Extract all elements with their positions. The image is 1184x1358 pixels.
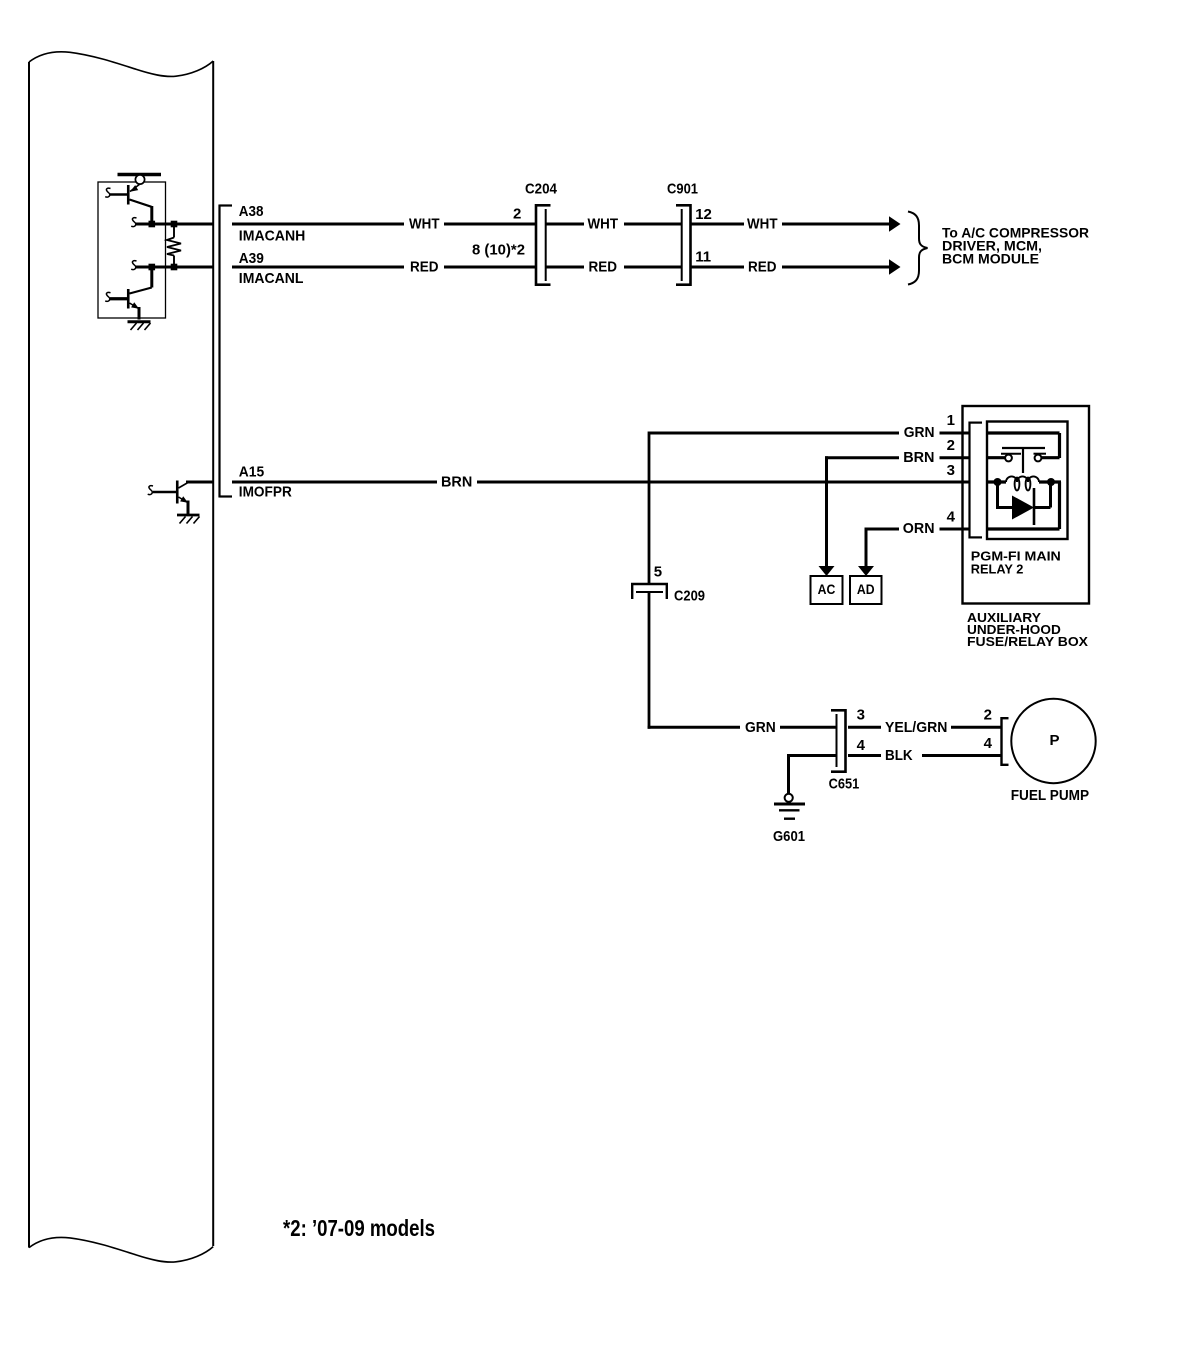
ground (Q2 emitter) bbox=[128, 322, 151, 330]
svg-text:WHT: WHT bbox=[588, 216, 619, 233]
transistor Q3 (IMOFPR driver) bbox=[153, 481, 213, 515]
svg-text:2: 2 bbox=[513, 206, 521, 223]
ground (Q3 emitter) bbox=[177, 515, 200, 524]
pin2 to left contact bbox=[988, 456, 1005, 459]
wire IMACANL internal bbox=[136, 266, 213, 269]
relay pin3 to coil bbox=[988, 480, 1006, 483]
svg-text:ORN: ORN bbox=[903, 520, 935, 537]
junction Q1 collector / CANH bbox=[149, 221, 156, 228]
svg-text:GRN: GRN bbox=[904, 424, 935, 441]
wire GRN to relay pin 1 bbox=[648, 432, 969, 435]
fuel pump connector bracket bbox=[1002, 717, 1009, 766]
squiggle IMACANL internal stub bbox=[131, 261, 136, 270]
CAN driver cell box bbox=[98, 182, 166, 318]
svg-text:5: 5 bbox=[654, 564, 662, 581]
svg-text:4: 4 bbox=[947, 509, 956, 526]
wire A15 BRN bbox=[232, 481, 969, 484]
svg-text:C651: C651 bbox=[829, 776, 860, 793]
contact seats bbox=[1001, 453, 1021, 455]
rail terminal circle bbox=[135, 175, 144, 184]
relay contact armature bbox=[1002, 447, 1045, 449]
supply rail bbox=[118, 173, 162, 176]
wire IMACANH internal (node to box edge) bbox=[136, 223, 213, 226]
svg-text:IMOFPR: IMOFPR bbox=[239, 484, 292, 501]
svg-text:RED: RED bbox=[748, 259, 777, 276]
svg-text:WHT: WHT bbox=[409, 216, 440, 233]
svg-text:GRN: GRN bbox=[745, 719, 776, 736]
squiggle Q3 base bbox=[148, 486, 153, 495]
relay internals: pin1 feed path bbox=[988, 433, 1060, 458]
arrow into AC bbox=[819, 566, 835, 576]
svg-text:G601: G601 bbox=[773, 828, 805, 845]
svg-text:A39: A39 bbox=[239, 250, 264, 267]
wire BLK to C651 / ground bbox=[789, 754, 1002, 794]
ground G601 bbox=[774, 794, 805, 819]
svg-text:RED: RED bbox=[589, 259, 618, 276]
connector AD box bbox=[850, 576, 882, 604]
svg-text:1: 1 bbox=[947, 412, 955, 429]
svg-text:C209: C209 bbox=[674, 588, 705, 605]
right contact to pin1 path bbox=[1042, 456, 1060, 459]
armature stem bbox=[1022, 448, 1024, 473]
relay pin4 bottom path bbox=[988, 482, 1060, 529]
ECM connector bracket (pins A38/A39/A15) bbox=[220, 205, 233, 498]
wire ORN to relay pin 4 bbox=[865, 528, 969, 567]
junction resistor top bbox=[171, 221, 178, 228]
resistor R (CAN termination) bbox=[167, 224, 181, 267]
svg-text:11: 11 bbox=[695, 248, 711, 265]
relay clamp diode bbox=[996, 482, 1051, 508]
svg-text:BCM MODULE: BCM MODULE bbox=[942, 251, 1039, 267]
svg-text:2: 2 bbox=[947, 437, 955, 454]
svg-text:C204: C204 bbox=[525, 181, 558, 198]
wire A39 RED segments bbox=[232, 266, 890, 269]
svg-text:WHT: WHT bbox=[747, 216, 778, 233]
PGM-FI main relay 2 (inner box) bbox=[987, 422, 1068, 540]
wire A38 WHT segments bbox=[232, 223, 890, 226]
svg-text:BRN: BRN bbox=[903, 449, 934, 466]
svg-text:3: 3 bbox=[947, 462, 955, 479]
squiggle IMACANH internal stub bbox=[131, 218, 136, 227]
svg-text:BRN: BRN bbox=[441, 474, 472, 491]
svg-text:C901: C901 bbox=[667, 181, 698, 198]
svg-text:A38: A38 bbox=[239, 203, 264, 220]
svg-text:FUSE/RELAY BOX: FUSE/RELAY BOX bbox=[967, 634, 1088, 649]
wire BRN to relay pin 2 bbox=[825, 456, 969, 566]
svg-text:4: 4 bbox=[984, 735, 993, 752]
contact terminal circles bbox=[1005, 455, 1012, 462]
brace to module bbox=[908, 212, 928, 285]
svg-text:FUEL PUMP: FUEL PUMP bbox=[1011, 787, 1089, 804]
arrow into AD bbox=[858, 566, 874, 576]
junction Q2 collector / CANL bbox=[149, 264, 156, 271]
auxiliary under-hood fuse/relay box bbox=[963, 406, 1090, 604]
transistor Q2 (NPN, CAN low driver) bbox=[110, 267, 152, 320]
connector C204 bbox=[536, 204, 551, 286]
squiggle Q2 base bbox=[105, 292, 110, 301]
relay coil bbox=[1006, 476, 1039, 490]
svg-text:AC: AC bbox=[818, 581, 836, 597]
svg-text:YEL/GRN: YEL/GRN bbox=[885, 719, 947, 736]
node vertical wire (GRN feed) bbox=[648, 434, 651, 728]
svg-text:A15: A15 bbox=[239, 464, 264, 481]
fuel pump motor M1 bbox=[1011, 699, 1095, 783]
svg-text:2: 2 bbox=[984, 706, 992, 723]
transistor Q1 (PNP, CAN high driver) bbox=[110, 184, 152, 224]
connector C209 bbox=[631, 584, 668, 599]
connector C901 bbox=[676, 204, 691, 286]
svg-text:RED: RED bbox=[410, 259, 439, 276]
junction resistor bottom bbox=[171, 264, 178, 271]
svg-text:IMACANL: IMACANL bbox=[239, 270, 304, 287]
ECM/PCM module outline (torn-edge box) bbox=[29, 52, 213, 1262]
relay connector bracket bbox=[970, 422, 983, 539]
svg-text:BLK: BLK bbox=[885, 747, 913, 764]
svg-text:RELAY 2: RELAY 2 bbox=[971, 562, 1024, 577]
svg-text:12: 12 bbox=[695, 206, 712, 223]
svg-text:P: P bbox=[1049, 732, 1059, 749]
svg-text:4: 4 bbox=[857, 737, 866, 754]
wire GRN to C651 bbox=[648, 726, 1001, 729]
junction dot coil right bbox=[1047, 478, 1055, 486]
arrow A38 to module bbox=[889, 216, 901, 231]
junction dot coil left bbox=[994, 478, 1002, 486]
svg-text:*2: ’07-09 models: *2: ’07-09 models bbox=[283, 1215, 435, 1241]
svg-text:8 (10)*2: 8 (10)*2 bbox=[472, 242, 525, 259]
connector AC box bbox=[811, 576, 843, 604]
svg-text:IMACANH: IMACANH bbox=[239, 227, 305, 244]
squiggle (base lead break) Q1 bbox=[105, 188, 110, 197]
arrow A39 to module bbox=[889, 259, 901, 274]
svg-text:AD: AD bbox=[857, 581, 875, 597]
svg-text:3: 3 bbox=[857, 706, 865, 723]
connector C651 bbox=[831, 709, 846, 773]
